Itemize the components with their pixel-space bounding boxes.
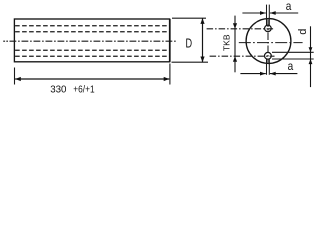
dimension line TKB (vertical, hole spacing) [234, 16, 236, 73]
dimension line a top, right segment [270, 12, 298, 14]
svg-text:a: a [288, 59, 294, 73]
svg-text:TKB: TKB [222, 34, 232, 51]
dimension line 330 [15, 78, 169, 80]
top slot edge left [266, 5, 268, 26]
extension line right (330 dim) [169, 64, 171, 85]
extension line top (D dim) [172, 17, 206, 19]
extension line bottom (D dim) [172, 61, 209, 63]
arrowhead right (330) [164, 77, 170, 81]
bottom slot edge left [266, 59, 268, 75]
svg-text:330: 330 [50, 84, 66, 96]
arrowhead right-pointing (a bottom left) [260, 72, 266, 76]
arrowhead up (TKB bottom, outside) [233, 56, 237, 62]
vertical centerline of end view [267, 20, 269, 63]
upper hole centerline [207, 28, 275, 30]
arrowhead left-pointing (a bottom right) [270, 72, 276, 76]
hidden line 2 (upper inner bore) [15, 31, 169, 33]
arrowhead left-pointing (a top right) [270, 11, 276, 15]
arrowhead down (D) [200, 57, 204, 63]
svg-text:d: d [297, 29, 309, 35]
svg-text:+6/+1: +6/+1 [73, 84, 94, 96]
shaft axis centerline [3, 40, 8, 42]
arrowhead down (TKB top, outside) [233, 23, 237, 29]
bottom slot edge right [268, 59, 270, 75]
hidden line 4 (lower outer bore) [15, 55, 169, 57]
horizontal centerline of end view [239, 42, 303, 44]
shaft body (side view rectangle) [14, 19, 169, 62]
lower hole [265, 52, 272, 59]
extension line d upper (hole top edge) [272, 51, 314, 53]
shaft right edge (bold) [169, 19, 171, 62]
lower hole centerline [210, 55, 275, 57]
arrowhead up (d, outside below) [309, 59, 313, 64]
top slot edge right [268, 5, 270, 26]
arrowhead up (D) [200, 18, 204, 24]
dimension line d (vertical) [310, 26, 312, 87]
arrowhead right-pointing (a top left) [260, 11, 266, 15]
svg-text:a: a [286, 0, 292, 13]
arrowhead down (d, outside above) [309, 47, 313, 52]
arrowhead left (330) [15, 77, 21, 81]
outer circle (end view) [246, 19, 291, 64]
hidden line 1 (upper outer bore) [15, 25, 169, 27]
dimension line a bottom, right segment [270, 73, 298, 75]
extension line left (330 dim) [14, 68, 16, 85]
extension line d lower (hole bottom edge) [272, 58, 314, 60]
hidden line 3 (lower inner bore) [15, 49, 169, 51]
dimension line a top, left segment [242, 12, 265, 14]
upper hole [265, 25, 272, 32]
svg-text:D: D [186, 36, 193, 50]
dimension line D [202, 18, 204, 62]
dimension line a bottom, left segment [240, 73, 265, 75]
